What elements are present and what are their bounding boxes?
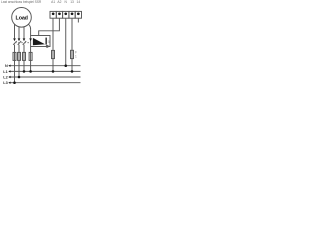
svg-text:13: 13 xyxy=(70,0,74,4)
svg-text:L2: L2 xyxy=(3,75,7,79)
svg-text:5: 5 xyxy=(48,40,50,44)
svg-text:Last anschluss beispiel SSR: Last anschluss beispiel SSR xyxy=(1,0,42,4)
svg-text:Load: Load xyxy=(16,15,28,21)
svg-text:N: N xyxy=(5,64,8,68)
svg-text:14: 14 xyxy=(77,0,81,4)
svg-text:1: 1 xyxy=(75,55,77,59)
svg-text:L3: L3 xyxy=(3,81,7,84)
svg-text:L1: L1 xyxy=(3,70,7,74)
svg-text:A1: A1 xyxy=(51,0,55,4)
svg-text:A2: A2 xyxy=(57,0,61,4)
